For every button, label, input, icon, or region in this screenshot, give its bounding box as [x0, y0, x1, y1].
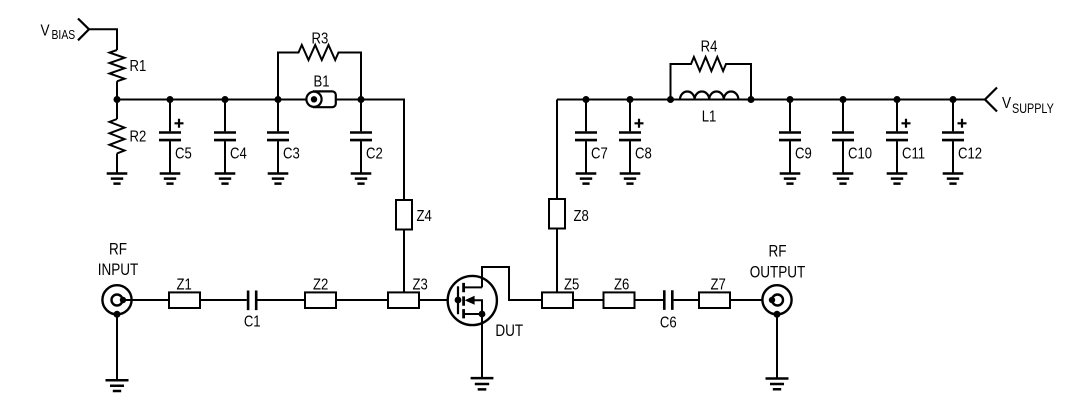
capacitor C2: [360, 100, 362, 132]
junction dot C4: [222, 96, 229, 103]
wire drain to Z5: [482, 267, 542, 300]
resistor R4 with loop wires: [671, 57, 752, 100]
svg-text:Z1: Z1: [177, 276, 192, 293]
RF output connector: [762, 285, 791, 314]
capacitor C5: [169, 100, 171, 132]
ground RF input: [106, 380, 129, 391]
svg-text:Z8: Z8: [574, 208, 589, 225]
svg-text:Z7: Z7: [711, 276, 726, 293]
VBIAS terminal chevron: [78, 19, 89, 41]
wire supply rail to Z8: [556, 100, 558, 200]
wire Z6 to C6: [635, 299, 664, 301]
resistor R3 with loop wires: [278, 45, 361, 100]
svg-text:C4: C4: [230, 145, 247, 162]
svg-text:OUTPUT: OUTPUT: [750, 263, 806, 282]
capacitor C1 (series): [248, 291, 256, 311]
svg-text:RF: RF: [768, 242, 786, 261]
ground DUT source: [471, 378, 494, 389]
ground RF output: [766, 379, 789, 390]
capacitor C8: [629, 100, 631, 132]
svg-text:C11: C11: [902, 145, 925, 162]
svg-text:R4: R4: [701, 38, 718, 55]
wire Z8 to Z5: [556, 229, 558, 293]
svg-text:DUT: DUT: [495, 322, 523, 341]
wire C1 to Z2: [258, 299, 306, 301]
svg-text:Z4: Z4: [417, 208, 432, 225]
capacitor C7: [585, 100, 587, 132]
svg-text:R1: R1: [130, 58, 147, 75]
DUT source lead: [464, 313, 482, 315]
impedance Z3: [388, 292, 419, 308]
DUT channel bar segments: [462, 283, 465, 319]
svg-text:Z3: Z3: [413, 276, 428, 293]
node A junction dot: [114, 96, 121, 103]
junction dot C9: [787, 96, 794, 103]
svg-text:R2: R2: [130, 128, 147, 145]
wire Z2 to Z3: [336, 299, 388, 301]
wire R1 to node: [116, 81, 118, 99]
svg-text:C10: C10: [848, 145, 872, 162]
wire input shield to ground: [116, 314, 118, 379]
capacitor C10: [842, 100, 844, 132]
wire output shield to ground: [776, 314, 778, 377]
ferrite bead B1: [314, 91, 336, 107]
svg-text:R3: R3: [312, 30, 329, 47]
RF input connector: [102, 285, 131, 314]
impedance Z1: [169, 292, 200, 308]
ground under R2: [107, 174, 128, 184]
capacitor C6 (series): [664, 290, 672, 310]
svg-text:Z2: Z2: [313, 276, 328, 293]
wire bias rail to Z4: [117, 100, 404, 201]
svg-text:RF: RF: [109, 240, 127, 259]
wire VBIAS to R1: [89, 29, 117, 50]
junction dot source-body tie: [479, 311, 486, 318]
junction dot C12: [950, 96, 957, 103]
junction dot L1 right: [748, 96, 755, 103]
junction dot C8: [627, 96, 634, 103]
transistor DUT (MOSFET) body circle: [448, 276, 497, 325]
junction dot output shield: [774, 311, 781, 318]
impedance Z2: [305, 292, 336, 308]
junction dot C2: [358, 96, 365, 103]
capacitor C3: [277, 100, 279, 132]
junction dot C7: [583, 96, 590, 103]
svg-text:V: V: [41, 23, 50, 40]
VSUPPLY terminal chevron: [985, 88, 997, 112]
DUT gate bar: [457, 286, 459, 314]
wire node to R2: [116, 100, 118, 120]
svg-text:INPUT: INPUT: [98, 261, 139, 280]
capacitor C11: [896, 100, 898, 132]
capacitor C12: [952, 100, 954, 132]
junction dot input shield: [114, 311, 121, 318]
impedance Z8: [549, 199, 565, 229]
wire Z1 to C1: [200, 299, 247, 301]
svg-text:V: V: [1002, 95, 1011, 112]
DUT drain lead: [464, 286, 482, 288]
wire C6 to Z7: [674, 299, 699, 301]
svg-text:C3: C3: [283, 145, 300, 162]
resistor R2: [110, 119, 125, 153]
wire supply rail: [557, 99, 985, 101]
impedance Z5: [542, 292, 573, 308]
svg-text:C12: C12: [958, 145, 982, 162]
svg-text:C8: C8: [635, 145, 652, 162]
svg-text:L1: L1: [702, 108, 717, 125]
junction dot C11: [894, 96, 901, 103]
svg-text:C2: C2: [366, 145, 383, 162]
svg-text:B1: B1: [313, 73, 329, 90]
junction dot C10: [840, 96, 847, 103]
junction dot gate: [455, 297, 462, 304]
svg-text:C9: C9: [795, 145, 812, 162]
svg-text:C1: C1: [244, 313, 261, 330]
resistor R1: [110, 50, 125, 81]
svg-text:SUPPLY: SUPPLY: [1012, 101, 1054, 116]
wire Z5 to Z6: [573, 299, 604, 301]
junction dot C5: [167, 96, 174, 103]
capacitor C4: [224, 100, 226, 132]
DUT body lead with arrow: [468, 300, 482, 314]
impedance Z7: [699, 292, 730, 308]
impedance Z4: [396, 200, 412, 230]
impedance Z6: [604, 292, 635, 308]
wire Z7 to RF output: [730, 299, 771, 301]
svg-text:C7: C7: [591, 145, 608, 162]
wire Z4 to Z3: [403, 230, 405, 293]
junction dot C3: [275, 96, 282, 103]
wire connector to Z1: [123, 299, 169, 301]
svg-text:BIAS: BIAS: [52, 28, 76, 42]
svg-text:Z6: Z6: [614, 276, 629, 293]
wire source to ground: [481, 314, 483, 379]
capacitor C9: [789, 100, 791, 132]
svg-text:C6: C6: [660, 314, 677, 331]
wire Z3 to DUT gate: [419, 299, 458, 301]
junction dot L1 left: [667, 96, 674, 103]
svg-text:Z5: Z5: [564, 276, 579, 293]
wire R2 to ground: [116, 153, 118, 173]
inductor L1: [680, 91, 738, 99]
svg-text:C5: C5: [175, 145, 192, 162]
